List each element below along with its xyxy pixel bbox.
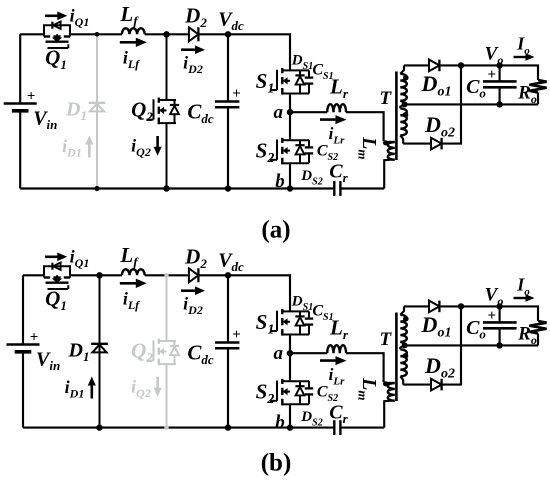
(b) wire top rail Q1-to-Lf segment: [70, 274, 122, 276]
(b) transistor S2 (MOSFET, body diode DS2, cap CS2): [270, 379, 313, 406]
(a) junction dot Q2 bottom: [163, 185, 169, 191]
svg-text:Do1: Do1: [421, 71, 452, 100]
(b) resistor Ro: [529, 321, 546, 334]
(b) junction dot Q2 top: [164, 273, 168, 277]
svg-text:Io: Io: [516, 275, 530, 299]
(b) inductor Lf: [122, 269, 145, 275]
(b) current arrow iD2: [181, 286, 205, 295]
(a) capacitor Cdc: [215, 102, 239, 108]
(a) junction dot Co bottom: [496, 101, 502, 107]
(b) wire a-to-Lr: [290, 352, 327, 354]
(b) capacitor Co: [483, 322, 517, 328]
(a) junction dot Vo: [496, 62, 502, 68]
(b) wire Q2 branch lower: [166, 364, 168, 428]
(b) polarity dot secondary upper: [403, 316, 409, 322]
(b) junction dot Vo: [496, 303, 502, 309]
svg-text:D1: D1: [65, 99, 87, 124]
(a) junction dot Vdc: [225, 31, 231, 37]
(b) current arrow iQ2: [154, 377, 162, 397]
(b) wire Ro bottom to rail: [537, 334, 539, 346]
svg-text:Do2: Do2: [424, 353, 455, 382]
(b) junction dot Cdc bottom: [225, 424, 231, 430]
svg-text:S1: S1: [256, 310, 275, 338]
(a) wire top rail D2-to-S1 segment and corner down: [198, 34, 290, 70]
(a) junction dot Cdc bottom: [225, 185, 231, 191]
(a) diode Do2: [431, 138, 442, 150]
(b) wire left vertical lower (Vin - to bottom rail): [22, 352, 24, 428]
(a) junction dot D1 bottom: [94, 186, 99, 191]
(a) diode Do1: [429, 60, 439, 72]
svg-text:Vin: Vin: [36, 349, 60, 374]
svg-text:S1: S1: [256, 69, 275, 97]
svg-text:Q1: Q1: [45, 46, 67, 73]
svg-text:Lm: Lm: [356, 377, 381, 400]
(a) diode D1: [89, 103, 106, 112]
(b) wire Co upper: [499, 306, 501, 322]
(a) secondary winding upper: [400, 74, 407, 101]
(b) wire a-to-S2: [289, 353, 291, 381]
(b) current arrow iLf: [120, 279, 147, 288]
(b) polarity dot primary: [383, 381, 388, 386]
(b) current arrow iQ1: [45, 253, 67, 262]
(b) wire secondary bottom to Do2 rail: [400, 376, 403, 384]
(a) label Lm: [356, 136, 381, 159]
(b) junction dot Vdc: [225, 272, 231, 278]
(a) wire S1-to-a: [289, 94, 291, 113]
svg-text:iD1: iD1: [62, 136, 82, 160]
(b) polarity dot secondary lower: [403, 353, 409, 359]
(a) polarity dot secondary lower: [403, 112, 409, 118]
svg-text:S2: S2: [256, 380, 275, 408]
(a) diode D2: [189, 27, 199, 41]
svg-text:a: a: [274, 102, 284, 123]
svg-text:+: +: [488, 308, 497, 324]
(a) wire Q2 branch lower: [166, 123, 168, 188]
(a) junction dot D1 top: [95, 32, 100, 37]
(b) diode Do1: [429, 301, 439, 313]
svg-text:+: +: [232, 86, 241, 102]
svg-text:DS1: DS1: [291, 53, 313, 73]
svg-text:iLr: iLr: [329, 124, 345, 147]
svg-text:iQ1: iQ1: [70, 6, 90, 30]
svg-text:Q2: Q2: [131, 339, 153, 366]
svg-text:iQ2: iQ2: [131, 377, 151, 401]
(a) current arrow iQ2: [154, 136, 162, 156]
(a) wire Do1-to-Vo rail and corner down to Ro: [439, 65, 538, 80]
svg-text:(b): (b): [261, 450, 292, 477]
(a) wire left vertical upper (Vin + to top rail): [19, 34, 21, 103]
(a) junction dot Do-join: [458, 62, 464, 68]
svg-text:Cr: Cr: [329, 161, 348, 186]
(a) polarity dot secondary upper: [403, 75, 409, 81]
(a) wire Cdc lower: [227, 107, 229, 188]
svg-text:DS2: DS2: [300, 409, 322, 429]
(a) current arrow iLr: [320, 115, 347, 124]
(a) wire Cdc upper: [227, 34, 229, 101]
(b) center tap junction dot: [402, 342, 408, 348]
(a) wire Do2-to-top connector: [442, 65, 461, 143]
(b) wire center tap rail: [405, 344, 538, 346]
(a) current arrow iQ1: [45, 12, 67, 21]
(a) junction dot Q2 top: [163, 31, 169, 37]
svg-text:+: +: [30, 329, 39, 345]
(b) current arrow Io: [514, 294, 535, 302]
(a) inductor Lf: [122, 28, 145, 34]
(a) wire Co lower: [499, 87, 501, 104]
(a) transistor Q2 (MOSFET with body diode): [147, 98, 180, 125]
(a) transistor S1 (MOSFET, body diode DS1, cap CS1): [270, 68, 313, 95]
(b) diode Do2: [431, 379, 442, 391]
(b) wire top rail D2-to-S1 segment and corner down: [198, 275, 290, 311]
svg-text:Do2: Do2: [424, 112, 455, 141]
(a) capacitor Cr: [334, 181, 340, 196]
(a) wire S2-to-b: [289, 163, 291, 188]
(a) secondary winding lower: [400, 108, 407, 135]
svg-text:S2: S2: [256, 139, 275, 167]
(a) inductor Lm (primary winding): [388, 142, 395, 160]
(b) wire bottom rail right segment (Cr to T): [340, 427, 384, 429]
(b) wire Do2 rail: [403, 384, 431, 386]
(a) wire top rail Q1-to-Lf segment: [70, 33, 122, 35]
(a) wire a-to-Lr: [290, 111, 327, 113]
(b) diode D2: [189, 268, 199, 282]
(b) capacitor Cr: [334, 420, 340, 435]
(b) wire primary bottom to rail: [384, 400, 394, 427]
(b) transformer core T: [395, 313, 398, 402]
svg-text:Do1: Do1: [421, 312, 452, 341]
(b) wire S2-to-b: [289, 404, 291, 427]
(b) secondary winding upper: [400, 315, 407, 342]
(b) node b dot: [287, 424, 293, 430]
(a) wire D1 branch vertical: [96, 34, 98, 188]
(b) junction dot D1 top: [96, 272, 102, 278]
(b) wire Co lower: [499, 328, 501, 345]
(a) wire primary bottom to rail: [384, 159, 394, 188]
svg-text:Q2: Q2: [131, 98, 153, 125]
(a) wire top rail left segment: [20, 33, 44, 35]
(b) transistor Q2 (MOSFET with body diode): [147, 339, 180, 366]
(a) node a dot: [287, 109, 293, 115]
(b) wire top rail left segment: [23, 274, 44, 276]
(b) capacitor Cdc: [215, 343, 239, 349]
(a) node b dot: [287, 185, 293, 191]
(b) wire D1 branch vertical: [99, 275, 101, 427]
svg-text:Lr: Lr: [329, 316, 349, 343]
svg-text:Q1: Q1: [45, 287, 67, 314]
(b) wire Cdc upper: [227, 275, 229, 342]
svg-text:iQ2: iQ2: [131, 136, 151, 160]
(a) wire Lr-to-T and corner down: [346, 112, 384, 141]
(a) transistor Q1 (MOSFET with body diode): [44, 22, 70, 49]
(a) wire a-to-S2: [289, 112, 291, 140]
(a) wire center tap jog: [400, 101, 404, 109]
(b) current arrow iD1: [88, 377, 96, 399]
(b) inductor Lr: [327, 345, 346, 353]
(b) junction dot D1 bottom: [96, 424, 102, 430]
(a) current arrow iLf: [120, 38, 147, 47]
(a) current arrow iD2: [181, 45, 205, 54]
(a) wire output top rail: [404, 64, 429, 66]
(a) wire Co upper: [499, 65, 501, 81]
svg-text:(a): (a): [261, 217, 290, 244]
(b) wire jog to primary coil: [384, 382, 395, 384]
svg-text:iLf: iLf: [123, 48, 140, 72]
svg-text:+: +: [27, 88, 36, 104]
(a) capacitor Co: [483, 81, 517, 87]
(a) resistor Ro: [529, 80, 546, 93]
svg-text:Cdc: Cdc: [187, 100, 214, 127]
(b) transistor Q1 (MOSFET with body diode): [44, 263, 70, 290]
(a) wire top rail Lf-to-D2 segment: [145, 33, 189, 35]
(b) wire Lr-to-T and corner down: [346, 353, 384, 382]
svg-text:Co: Co: [466, 317, 486, 342]
svg-text:Vin: Vin: [33, 108, 57, 133]
svg-text:Vdc: Vdc: [218, 250, 244, 275]
(b) wire S1-to-a: [289, 335, 291, 354]
(a) wire left vertical lower (Vin - to bottom rail): [19, 111, 21, 189]
(b) wire left vertical upper (Vin + to top rail): [22, 275, 24, 344]
(b) wire top rail Lf-to-D2 segment: [145, 274, 189, 276]
(a) wire Do2 rail: [403, 143, 431, 145]
(b) junction dot Q2 bottom: [164, 425, 168, 429]
(b) battery Vin: [7, 345, 40, 352]
svg-text:D2: D2: [184, 245, 207, 272]
(a) wire bottom rail right segment (Cr to T): [340, 187, 384, 189]
svg-text:DS2: DS2: [300, 168, 322, 188]
(a) transistor S2 (MOSFET, body diode DS2, cap CS2): [270, 138, 313, 165]
svg-text:iQ1: iQ1: [70, 247, 90, 271]
(b) wire Cdc lower: [227, 348, 229, 427]
(a) wire bottom rail left segment: [20, 187, 334, 189]
(a) wire Ro bottom to rail: [537, 93, 539, 105]
(b) current arrow iLr: [320, 356, 347, 365]
(a) inductor Lr: [327, 104, 346, 112]
svg-text:+: +: [488, 67, 497, 83]
(b) wire secondary top to rail: [400, 306, 404, 314]
(a) wire Q2 branch upper: [166, 34, 168, 100]
svg-text:iD2: iD2: [183, 53, 203, 77]
svg-text:Lf: Lf: [119, 243, 139, 270]
svg-text:D2: D2: [184, 4, 207, 31]
svg-text:T: T: [379, 329, 392, 350]
svg-text:Cr: Cr: [329, 402, 348, 427]
svg-text:b: b: [275, 412, 285, 433]
(b) wire output top rail: [404, 305, 429, 307]
(b) junction dot Co bottom: [496, 342, 502, 348]
(a) wire jog to primary coil: [384, 141, 395, 143]
svg-text:Lf: Lf: [119, 2, 139, 29]
svg-text:b: b: [275, 171, 285, 192]
svg-text:DS1: DS1: [291, 294, 313, 314]
(b) label Lm: [356, 377, 381, 400]
svg-text:Io: Io: [516, 34, 530, 58]
(a) battery Vin: [4, 104, 37, 111]
(b) junction dot Do-join: [458, 303, 464, 309]
(b) node a dot: [287, 350, 293, 356]
svg-text:Lm: Lm: [356, 136, 381, 159]
(a) transformer core T: [395, 72, 398, 161]
(a) center tap junction dot: [402, 101, 408, 107]
(a) polarity dot primary: [383, 140, 388, 145]
(a) wire secondary top to rail: [400, 65, 404, 73]
svg-text:Co: Co: [466, 76, 486, 101]
(b) transistor S1 (MOSFET, body diode DS1, cap CS1): [270, 309, 313, 336]
svg-text:iLr: iLr: [329, 365, 345, 388]
svg-text:a: a: [274, 343, 284, 364]
svg-text:iD2: iD2: [183, 294, 203, 318]
(b) wire Do2-to-top connector: [442, 306, 461, 384]
(b) diode D1: [91, 344, 108, 353]
(b) wire bottom rail left segment: [23, 427, 334, 429]
(b) secondary winding lower: [400, 349, 407, 376]
svg-text:D1: D1: [68, 340, 90, 365]
svg-text:T: T: [379, 88, 392, 109]
(b) inductor Lm (primary winding): [388, 383, 395, 401]
svg-text:Vdc: Vdc: [218, 9, 244, 34]
(a) wire secondary bottom to Do2 rail: [400, 135, 403, 143]
svg-text:iD1: iD1: [65, 377, 85, 401]
(a) current arrow iD1: [85, 136, 93, 158]
svg-text:+: +: [232, 327, 241, 343]
(b) wire Do1-to-Vo rail and corner down to Ro: [439, 306, 538, 321]
(b) wire Q2 branch upper: [166, 275, 168, 341]
svg-text:Lr: Lr: [329, 75, 349, 102]
svg-text:iLf: iLf: [123, 289, 140, 313]
(a) wire center tap rail: [405, 103, 538, 105]
svg-text:Cdc: Cdc: [187, 341, 214, 368]
(a) current arrow Io: [514, 53, 535, 61]
(b) wire center tap jog: [400, 342, 404, 350]
